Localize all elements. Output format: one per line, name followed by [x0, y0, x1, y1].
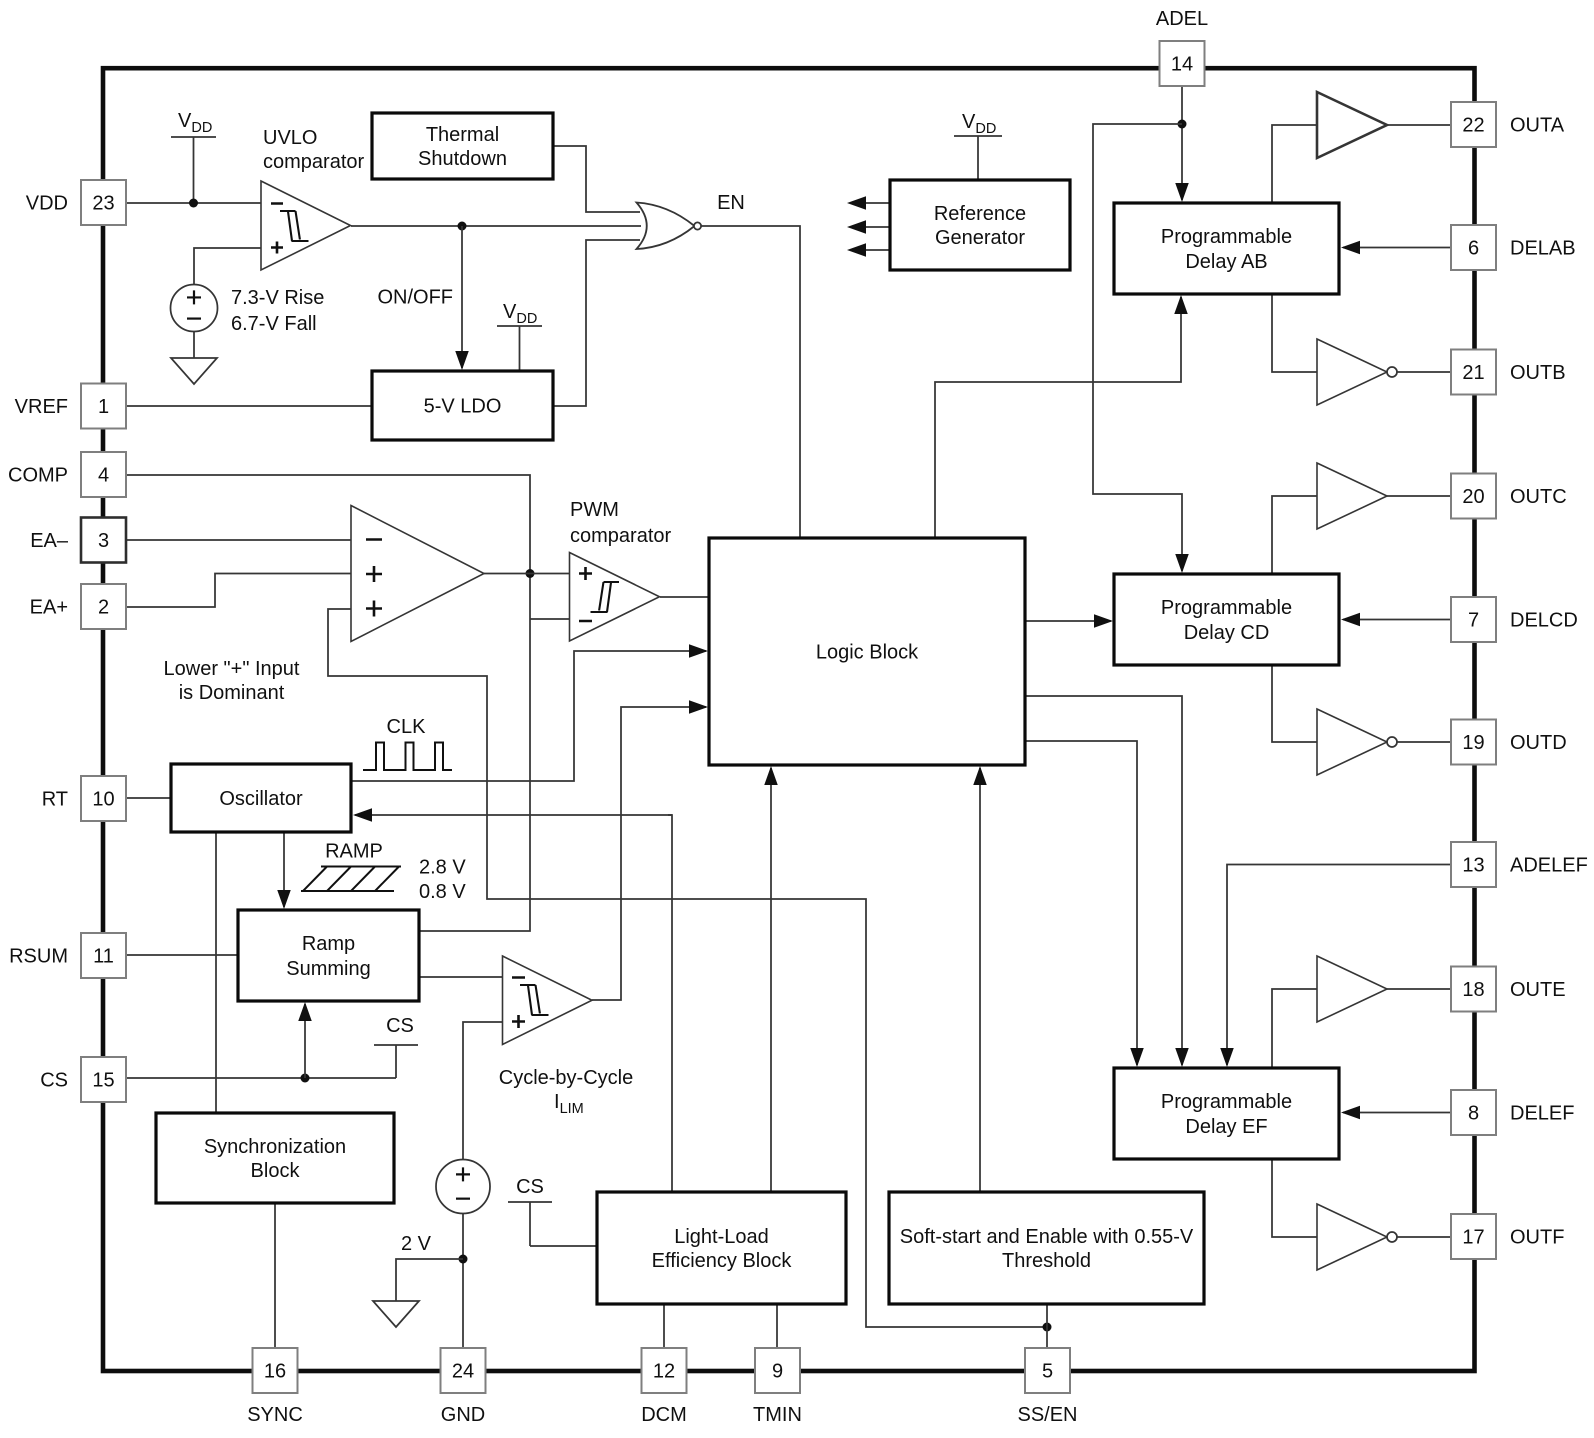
svg-text:VDD: VDD — [26, 193, 68, 215]
wire ramp summing output to cycle-by-cycle minus — [420, 976, 502, 978]
pin 12 DCM — [642, 1348, 687, 1393]
wire UVLO plus input from reference source — [194, 248, 261, 285]
svg-text:PWM: PWM — [570, 499, 619, 521]
pin 20 OUTC — [1451, 474, 1496, 519]
svg-text:5: 5 — [1042, 1361, 1053, 1383]
block ramp summing — [238, 910, 419, 1001]
svg-text:Programmable: Programmable — [1161, 226, 1292, 248]
pin 16 SYNC — [253, 1348, 298, 1393]
wire source to ground — [193, 332, 195, 359]
svg-text:Efficiency Block: Efficiency Block — [652, 1250, 793, 1272]
wire delay AB to OUTB inverter — [1272, 294, 1317, 372]
CS rail symbol near light-load block — [508, 1202, 597, 1246]
block light-load efficiency — [597, 1192, 846, 1304]
svg-text:OUTF: OUTF — [1510, 1227, 1564, 1249]
svg-text:11: 11 — [93, 946, 114, 968]
block oscillator — [171, 764, 351, 832]
svg-text:1: 1 — [98, 396, 109, 418]
buffer OUTC — [1317, 463, 1387, 529]
VDD rail above 5-V LDO — [497, 326, 542, 371]
wire OUTC buffer to pin20 — [1387, 495, 1451, 497]
svg-text:RAMP: RAMP — [325, 841, 383, 863]
svg-text:2 V: 2 V — [401, 1233, 432, 1255]
svg-text:EA+: EA+ — [30, 597, 68, 619]
wire branch to PWM minus input — [530, 618, 569, 620]
svg-text:17: 17 — [1462, 1227, 1484, 1249]
svg-text:16: 16 — [264, 1361, 286, 1383]
CLK waveform glyph — [363, 743, 452, 771]
svg-text:Programmable: Programmable — [1161, 1091, 1292, 1113]
wire OUTA buffer to pin22 — [1387, 124, 1451, 126]
wire delay AB to OUTA buffer — [1272, 125, 1317, 203]
wire CLK to Logic Block — [351, 651, 706, 781]
svg-text:19: 19 — [1462, 732, 1484, 754]
svg-text:2.8 V: 2.8 V — [419, 857, 466, 879]
node error amp output junction — [526, 569, 535, 578]
op-amp PWM comparator — [570, 553, 660, 642]
svg-text:ADELEF: ADELEF — [1510, 855, 1588, 877]
pin 14 ADEL — [1160, 41, 1205, 86]
svg-text:18: 18 — [1462, 979, 1484, 1001]
wire Logic Block to delay EF input1 — [1025, 696, 1182, 1065]
svg-text:ON/OFF: ON/OFF — [377, 287, 453, 309]
svg-text:VREF: VREF — [15, 396, 68, 418]
wire cycle-by-cycle plus input from 2V source — [463, 1022, 502, 1159]
svg-text:7: 7 — [1468, 610, 1479, 632]
inverter OUTB — [1317, 339, 1387, 405]
svg-text:22: 22 — [1462, 115, 1484, 137]
pin 4 COMP — [81, 452, 126, 497]
ground symbol near GND — [373, 1301, 419, 1327]
svg-text:Summing: Summing — [286, 958, 370, 980]
block reference generator — [890, 180, 1070, 270]
block thermal shutdown — [372, 113, 553, 179]
wire ADELEF pin13 to delay EF — [1227, 865, 1451, 1066]
wire soft-start clamp to lower plus input — [328, 609, 1044, 1327]
svg-text:SYNC: SYNC — [247, 1404, 303, 1426]
svg-text:20: 20 — [1462, 486, 1484, 508]
wire VDD stub into reference generator — [954, 136, 1002, 180]
svg-text:Threshold: Threshold — [1002, 1250, 1091, 1272]
wire CS up into ramp summing — [304, 1004, 306, 1078]
op-amp error amplifier — [351, 506, 484, 642]
svg-text:DELCD: DELCD — [1510, 610, 1578, 632]
op-amp cycle-by-cycle current limit comparator — [503, 956, 593, 1045]
node GND junction — [459, 1255, 468, 1264]
NOR gate EN logic — [637, 203, 695, 250]
pin 7 DELCD — [1451, 597, 1496, 642]
svg-text:OUTC: OUTC — [1510, 486, 1567, 508]
pin 15 CS — [81, 1057, 126, 1102]
node CS junction — [301, 1074, 310, 1083]
wire OUTF inverter to pin17 — [1397, 1236, 1451, 1238]
svg-text:21: 21 — [1462, 362, 1484, 384]
svg-text:10: 10 — [92, 789, 114, 811]
wire UVLO output to NOR gate — [351, 225, 641, 227]
pin 22 OUTA — [1451, 102, 1496, 147]
svg-text:12: 12 — [653, 1361, 675, 1383]
wire RSUM pin11 to ramp summing — [126, 954, 238, 956]
svg-text:Ramp: Ramp — [302, 933, 355, 955]
wire 2V source to GND pin24 — [462, 1214, 464, 1349]
svg-text:CLK: CLK — [387, 716, 427, 738]
block soft-start — [889, 1192, 1204, 1304]
pin 17 OUTF — [1451, 1214, 1496, 1259]
wire light-load block to oscillator input — [668, 815, 672, 1192]
svg-text:OUTD: OUTD — [1510, 732, 1567, 754]
wire CS pin15 line — [126, 1077, 396, 1079]
wire DELAB pin6 to delay AB — [1343, 247, 1451, 249]
pin 13 ADELEF — [1451, 842, 1496, 887]
svg-text:Oscillator: Oscillator — [219, 788, 303, 810]
svg-text:3: 3 — [98, 530, 109, 552]
pin 2 EA+ — [81, 584, 126, 629]
svg-text:Light-Load: Light-Load — [674, 1226, 769, 1248]
svg-text:is Dominant: is Dominant — [179, 682, 285, 704]
svg-text:Delay AB: Delay AB — [1185, 251, 1267, 273]
svg-text:13: 13 — [1462, 855, 1484, 877]
wire RT pin10 to oscillator — [126, 797, 171, 799]
wire light-load block up to Logic Block — [770, 768, 772, 1192]
wire Logic Block to delay EF input2 — [1025, 741, 1137, 1065]
svg-text:5-V LDO: 5-V LDO — [424, 396, 502, 418]
svg-text:4: 4 — [98, 465, 109, 487]
inverter OUTD — [1317, 709, 1387, 775]
svg-text:CS: CS — [516, 1176, 544, 1198]
wire delay EF to OUTF inverter — [1272, 1159, 1317, 1237]
wire delay EF to OUTE buffer — [1272, 989, 1317, 1068]
node SS/EN junction — [1043, 1323, 1052, 1332]
wire OUTD inverter to pin19 — [1397, 741, 1451, 743]
wire cycle-by-cycle output to Logic Block — [592, 707, 706, 1000]
svg-text:OUTE: OUTE — [1510, 979, 1566, 1001]
pin 18 OUTE — [1451, 967, 1496, 1012]
wire PWM output to Logic Block — [660, 596, 709, 598]
svg-text:Reference: Reference — [934, 203, 1026, 225]
svg-text:RT: RT — [42, 789, 68, 811]
svg-text:OUTA: OUTA — [1510, 115, 1565, 137]
svg-text:Synchronization: Synchronization — [204, 1136, 346, 1158]
wire ADEL to delay CD — [1093, 124, 1182, 571]
pin 24 GND — [441, 1348, 486, 1393]
svg-text:EA–: EA– — [30, 530, 69, 552]
wire soft-start block to Logic Block — [979, 768, 981, 1193]
wire soft-start block to SS/EN pin5 — [1046, 1304, 1048, 1348]
wire synchronization block to SYNC pin16 — [274, 1203, 276, 1348]
wire EA+ pin2 to error amp — [126, 574, 351, 608]
svg-text:ADEL: ADEL — [1156, 8, 1208, 30]
wire ADEL pin14 down to delay AB — [1181, 86, 1183, 200]
pin 10 RT — [81, 776, 126, 821]
pin 1 VREF — [81, 384, 126, 429]
svg-text:15: 15 — [92, 1070, 114, 1092]
wire reference generator output arrows — [864, 202, 890, 204]
block programmable delay CD — [1114, 574, 1339, 665]
svg-text:COMP: COMP — [8, 465, 68, 487]
RAMP sawtooth glyph — [301, 867, 401, 892]
wire error amp output to PWM plus input — [484, 573, 569, 575]
buffer OUTE — [1317, 956, 1387, 1022]
voltage source V2 2V — [436, 1160, 490, 1214]
svg-text:Generator: Generator — [935, 227, 1025, 249]
svg-text:DELEF: DELEF — [1510, 1103, 1574, 1125]
block 5-V LDO — [372, 371, 553, 440]
pin 23 VDD — [81, 180, 126, 225]
svg-text:RSUM: RSUM — [9, 946, 68, 968]
chip outline border — [103, 68, 1475, 1371]
pin 21 OUTB — [1451, 350, 1496, 395]
svg-text:Programmable: Programmable — [1161, 597, 1292, 619]
wire EA- pin3 to error amp — [126, 539, 351, 541]
svg-text:OUTB: OUTB — [1510, 362, 1566, 384]
svg-text:6: 6 — [1468, 238, 1479, 260]
svg-text:Cycle-by-Cycle: Cycle-by-Cycle — [499, 1067, 633, 1089]
pin 11 RSUM — [81, 933, 126, 978]
node ON/OFF junction — [458, 222, 467, 231]
wire RAMP output to ramp summing — [283, 832, 285, 907]
svg-text:comparator: comparator — [570, 525, 671, 547]
svg-text:2: 2 — [98, 597, 109, 619]
svg-text:Delay EF: Delay EF — [1185, 1116, 1267, 1138]
svg-text:DELAB: DELAB — [1510, 238, 1576, 260]
wire delay CD to OUTD inverter — [1272, 665, 1317, 742]
wire EN from NOR output to Logic Block — [701, 226, 800, 538]
pin 9 TMIN — [755, 1348, 800, 1393]
pin 3 EA- — [81, 518, 126, 563]
pin 5 SS/EN — [1025, 1348, 1070, 1393]
svg-text:Block: Block — [251, 1160, 301, 1182]
svg-text:DCM: DCM — [641, 1404, 687, 1426]
block synchronization — [156, 1113, 394, 1203]
svg-text:Soft-start and Enable with 0.5: Soft-start and Enable with 0.55-V — [900, 1226, 1194, 1248]
block logic block — [709, 538, 1025, 765]
svg-text:EN: EN — [717, 192, 745, 214]
pin 19 OUTD — [1451, 720, 1496, 765]
svg-text:CS: CS — [40, 1070, 68, 1092]
wire Logic Block to delay CD — [1025, 620, 1111, 622]
svg-text:Lower "+" Input: Lower "+" Input — [164, 658, 300, 680]
svg-text:24: 24 — [452, 1361, 474, 1383]
svg-text:Shutdown: Shutdown — [418, 148, 507, 170]
svg-text:Thermal: Thermal — [426, 124, 499, 146]
pin 8 DELEF — [1451, 1090, 1496, 1135]
buffer OUTA — [1317, 92, 1387, 158]
svg-text:23: 23 — [92, 193, 114, 215]
svg-text:0.8 V: 0.8 V — [419, 881, 466, 903]
svg-text:SS/EN: SS/EN — [1017, 1404, 1077, 1426]
wire delay CD to OUTC buffer — [1272, 496, 1317, 574]
op-amp UVLO comparator — [261, 181, 351, 270]
svg-text:Delay CD: Delay CD — [1184, 622, 1270, 644]
wire Logic Block to delay AB — [935, 297, 1181, 538]
wire VREF pin1 to 5-V LDO — [126, 405, 372, 407]
inverter OUTF — [1317, 1204, 1387, 1270]
svg-text:9: 9 — [772, 1361, 783, 1383]
wire DELEF pin8 to delay EF — [1343, 1112, 1451, 1114]
VDD rail above pin 23 — [171, 137, 216, 203]
pin 6 DELAB — [1451, 225, 1496, 270]
svg-text:8: 8 — [1468, 1103, 1479, 1125]
wire oscillator to synchronization block — [215, 832, 217, 1113]
wire light-load block to TMIN pin9 — [776, 1304, 778, 1348]
svg-text:GND: GND — [441, 1404, 485, 1426]
CS rail symbol near ramp summing — [374, 1045, 418, 1078]
wire OUTB inverter to pin21 — [1397, 371, 1451, 373]
svg-text:14: 14 — [1171, 54, 1193, 76]
svg-text:Logic Block: Logic Block — [816, 642, 919, 664]
svg-text:7.3-V Rise: 7.3-V Rise — [231, 287, 324, 309]
node VDD junction — [189, 199, 198, 208]
wire light-load block to DCM pin12 — [663, 1304, 665, 1348]
svg-text:comparator: comparator — [263, 151, 364, 173]
wire 5-V LDO output to NOR input — [553, 240, 640, 406]
svg-text:TMIN: TMIN — [753, 1404, 802, 1426]
block programmable delay AB — [1114, 203, 1339, 294]
ground symbol below V1 — [171, 358, 217, 384]
svg-text:UVLO: UVLO — [263, 127, 317, 149]
wire branch to ground symbol — [396, 1259, 463, 1301]
wire COMP pin4 down to PWM comparator — [126, 475, 530, 931]
svg-text:CS: CS — [386, 1015, 414, 1037]
svg-text:6.7-V Fall: 6.7-V Fall — [231, 313, 317, 335]
wire VDD pin23 to UVLO minus input — [126, 202, 261, 204]
wire thermal shutdown to NOR input — [554, 146, 640, 212]
voltage source V1 7.3-V rise 6.7-V fall — [171, 285, 218, 332]
wire OUTE buffer to pin18 — [1387, 988, 1451, 990]
block programmable delay EF — [1114, 1068, 1339, 1159]
wire DELCD pin7 to delay CD — [1343, 619, 1451, 621]
node ADEL junction — [1178, 120, 1187, 129]
wire ON/OFF down to 5-V LDO — [461, 226, 463, 368]
